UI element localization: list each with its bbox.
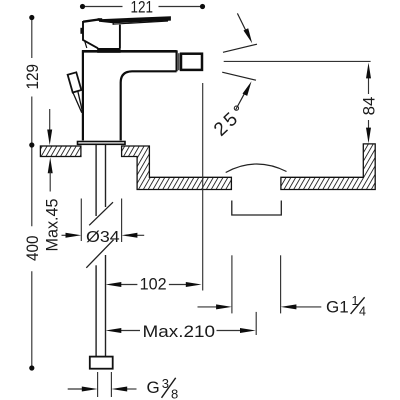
drain channel — [232, 201, 281, 216]
dim 84 line upper — [368, 76, 370, 94]
max45 upper arrowhead — [47, 130, 52, 146]
dim 129/400 vertical line — [31, 18, 33, 369]
aerator — [181, 54, 202, 70]
supply connector — [90, 357, 113, 369]
counter left slab — [40, 146, 81, 157]
bidet rim slab right — [281, 144, 375, 190]
svg-text:G1: G1 — [326, 297, 349, 316]
G1 1/4 left extension line — [231, 255, 233, 313]
set screw nub — [80, 28, 83, 34]
handle base black bar — [97, 48, 120, 53]
spout end cap — [176, 50, 178, 71]
dim dot middle — [29, 142, 34, 147]
dim max210 right arrow — [217, 330, 243, 332]
pipe break mark upper — [89, 202, 113, 225]
svg-text:Max.45: Max.45 — [43, 199, 61, 252]
drain pull rod — [73, 91, 83, 113]
upper leader arrowhead — [244, 28, 253, 43]
svg-text:Ø34: Ø34 — [86, 229, 120, 246]
right supply pipe upper — [105, 145, 107, 207]
svg-text:G: G — [147, 378, 160, 397]
left supply pipe lower — [95, 265, 97, 356]
dim dot bottom — [29, 365, 34, 370]
handle cartridge cover — [83, 21, 120, 48]
upper leader line — [237, 13, 248, 36]
G1 1/4 right extension line — [280, 255, 282, 313]
label 129 — [24, 64, 42, 90]
drain pull knob — [68, 72, 82, 92]
dia34 right arrow — [136, 234, 144, 236]
left supply pipe upper — [95, 145, 97, 216]
G3/8 right extension line — [110, 372, 112, 397]
faucet body top and spout top — [82, 50, 177, 53]
svg-text:400: 400 — [24, 236, 42, 261]
dia34 right extension line — [121, 199, 123, 243]
dim 121 dot right — [200, 4, 205, 9]
lever hub vertical — [112, 22, 114, 25]
handle lever bar — [99, 16, 171, 23]
dim 121 line — [83, 6, 203, 8]
svg-text:121: 121 — [131, 0, 154, 17]
dim 84 down arrowhead — [366, 128, 371, 144]
faucet body left edge — [82, 50, 84, 140]
svg-text:Max.210: Max.210 — [143, 323, 216, 341]
dim max210 left arrow — [120, 330, 140, 332]
max45 lower arrow shaft — [49, 172, 51, 192]
dim 84 line lower — [368, 120, 370, 130]
G1 1/4 left arrow — [198, 306, 220, 308]
jet upper ray — [223, 44, 257, 52]
spout axis line — [224, 60, 371, 62]
handle skirt inner line — [85, 41, 87, 48]
counter right stepped slab — [122, 146, 232, 190]
svg-text:129: 129 — [24, 64, 42, 90]
label 25deg — [210, 100, 252, 141]
aerator connector line — [178, 53, 180, 70]
svg-text:84: 84 — [361, 97, 379, 116]
max45 lower arrowhead — [48, 157, 53, 173]
G3/8 left extension line — [97, 372, 99, 397]
svg-text:8: 8 — [171, 387, 178, 400]
jet lower ray — [222, 72, 256, 80]
lever pivot top edge — [83, 19, 99, 21]
dim max210 extension line — [255, 312, 257, 335]
lower leader arrowhead — [243, 81, 252, 96]
pipe break mark lower — [86, 240, 113, 268]
svg-text:102: 102 — [140, 275, 167, 293]
G3/8 right arrow — [125, 388, 137, 390]
dim dot top — [29, 15, 34, 20]
label 400 — [24, 236, 42, 261]
right supply pipe lower — [105, 255, 107, 357]
label 84 — [361, 97, 379, 116]
spout underside and body right edge — [121, 71, 177, 140]
dim 121 dot left — [80, 4, 85, 9]
bowl arc — [226, 164, 287, 173]
svg-text:4: 4 — [359, 305, 366, 319]
dia34 left extension line — [80, 199, 82, 242]
dia34 left arrow — [62, 234, 68, 236]
lower leader line — [236, 89, 247, 110]
label Max.45 — [43, 199, 61, 252]
dim 102 line right arrow — [169, 284, 186, 286]
lever top bump — [98, 18, 103, 21]
G1 1/4 right arrow — [295, 306, 321, 308]
max45 upper arrow shaft — [49, 109, 51, 131]
dim 102 line left arrow — [120, 284, 137, 286]
base flange — [78, 142, 126, 145]
dim 84 up arrowhead — [366, 63, 371, 79]
dim 102 extension line (spout tip) — [202, 83, 204, 291]
G3/8 left arrow — [68, 388, 84, 390]
lever underside line — [113, 21, 169, 24]
